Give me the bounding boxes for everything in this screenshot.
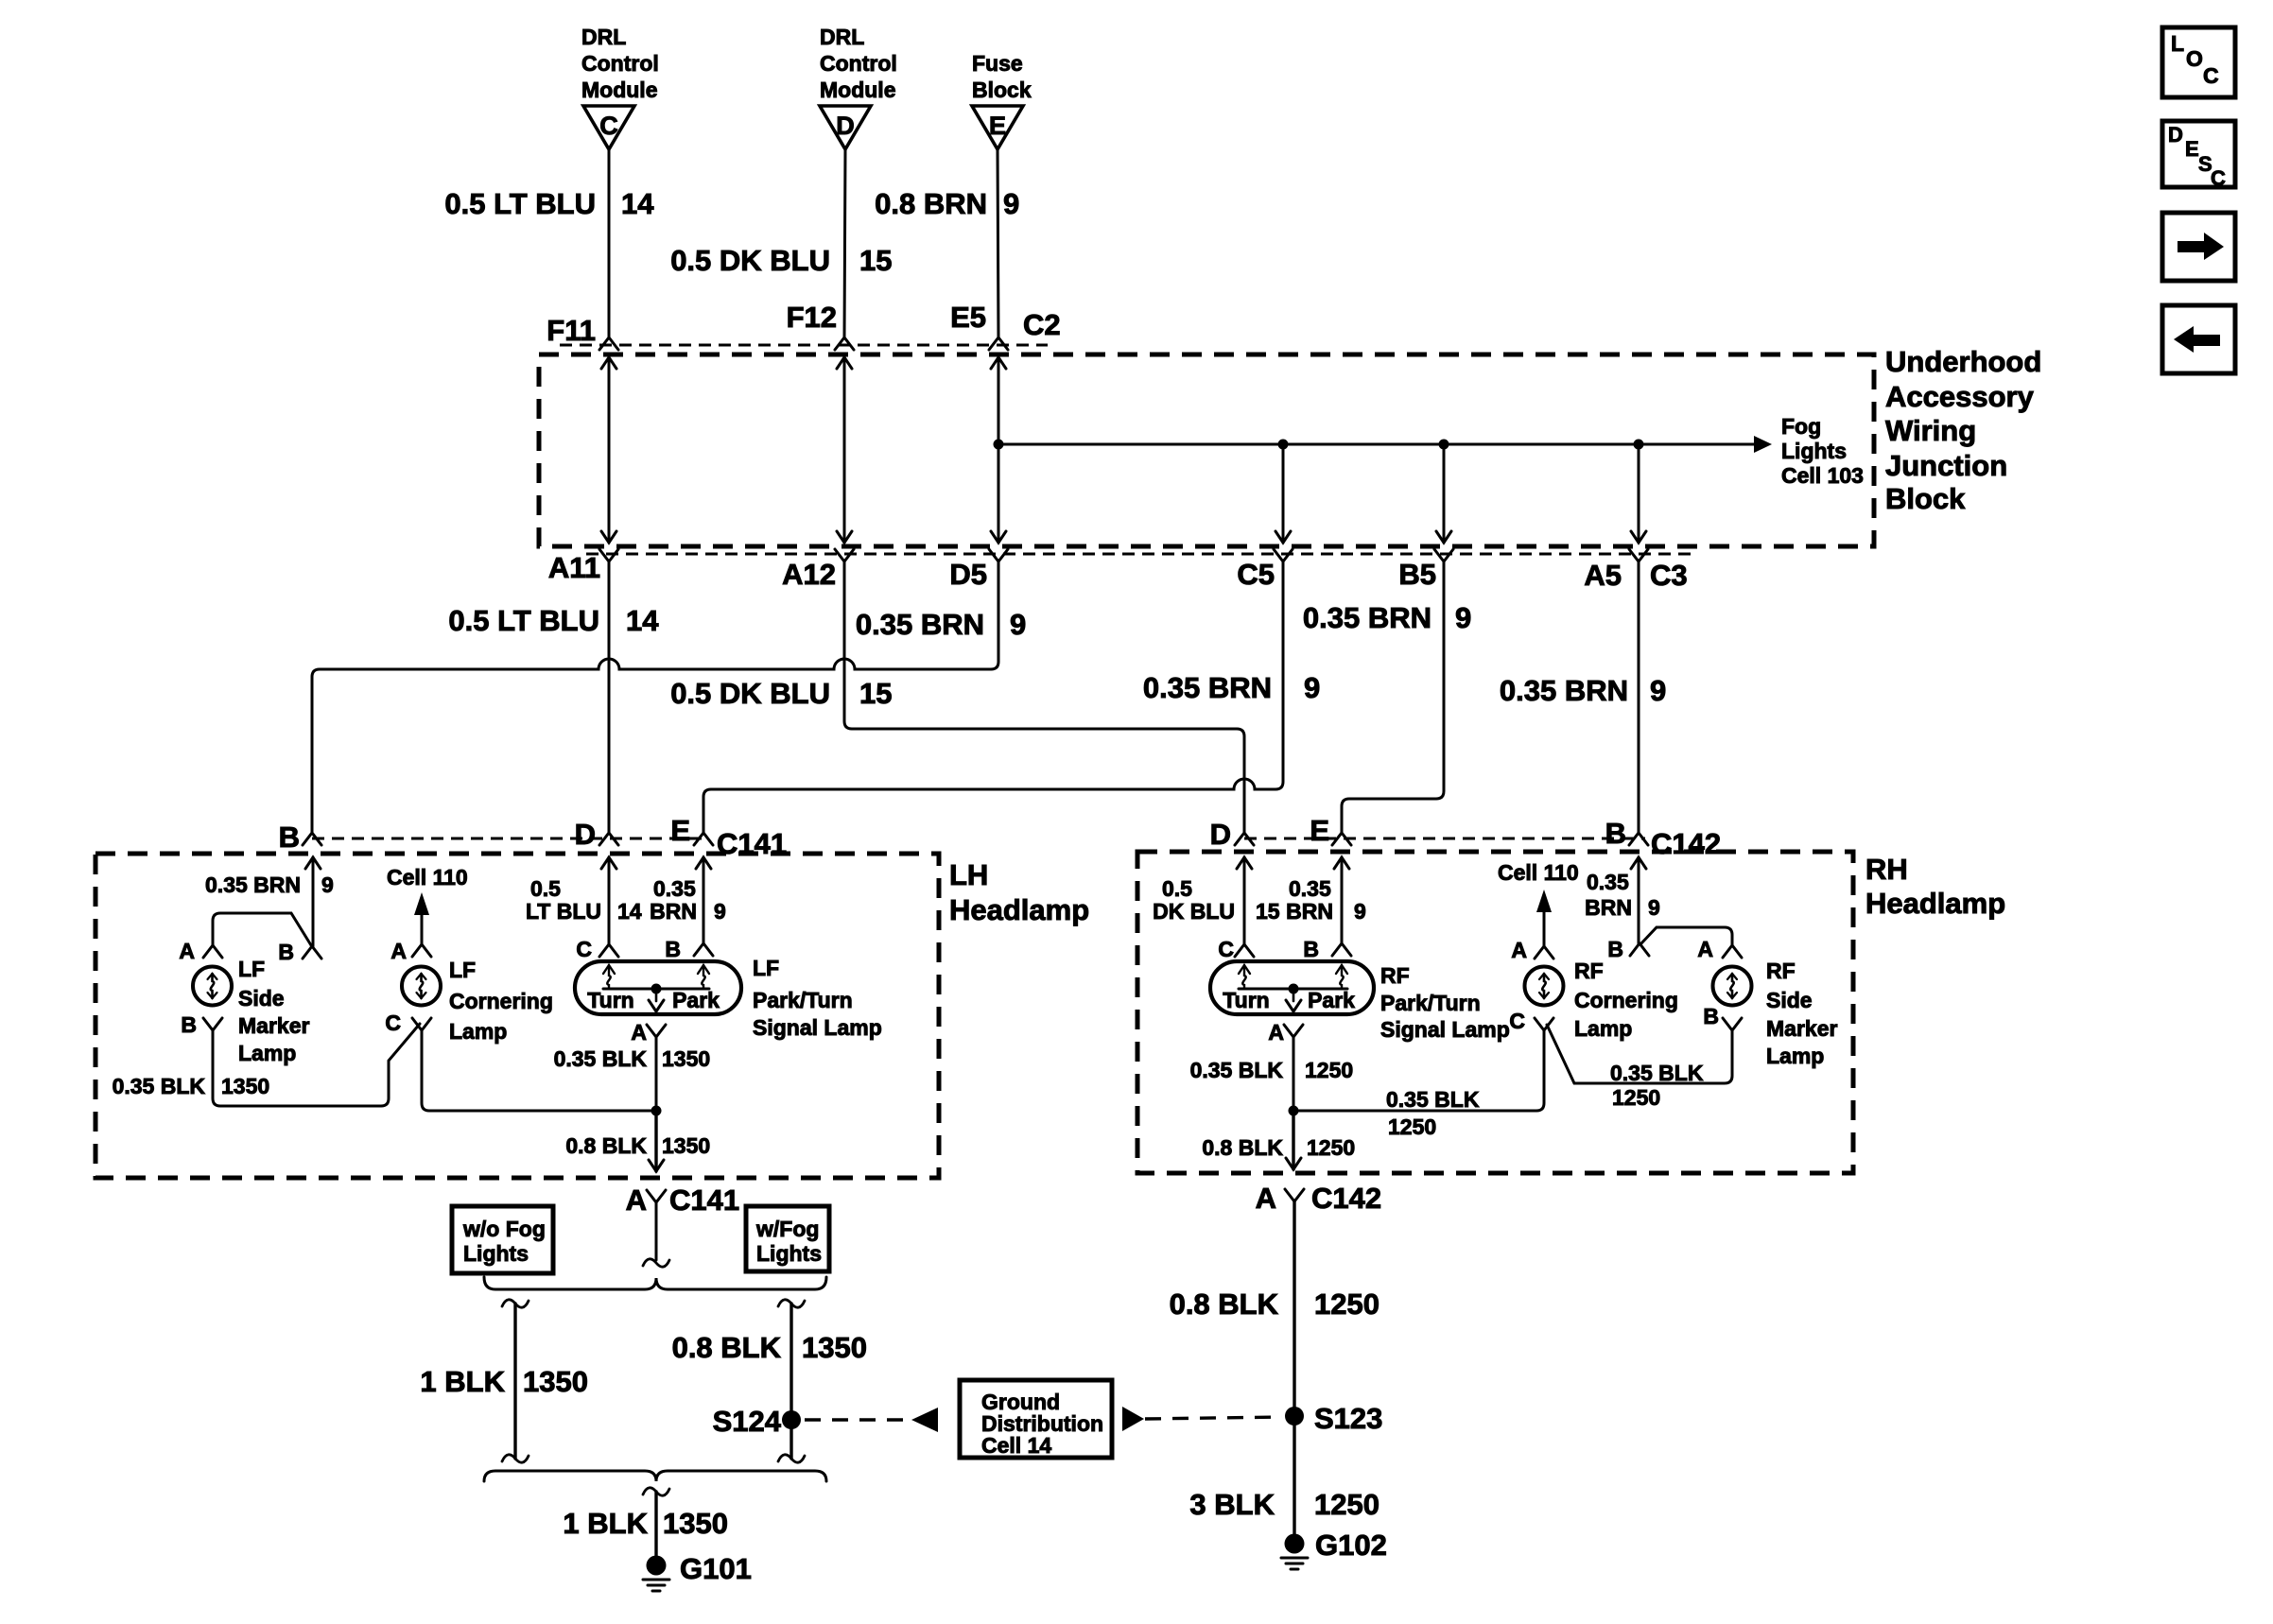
pin C5 [1237, 549, 1293, 591]
svg-text:0.5 DK BLU: 0.5 DK BLU [670, 677, 830, 710]
svg-text:0.35 BRN: 0.35 BRN [205, 872, 301, 897]
icon box arrow left [2162, 305, 2235, 373]
label E5 [950, 301, 986, 334]
pin B of RF side marker (ground) [1703, 1004, 1742, 1030]
svg-text:RF: RF [1574, 959, 1604, 983]
wire RF cornering A to Cell 110 [1536, 890, 1552, 946]
label RF Side Marker Lamp [1766, 959, 1837, 1068]
svg-text:9: 9 [1304, 671, 1320, 704]
svg-text:15: 15 [859, 677, 892, 710]
wire RF side marker A to feed [1640, 927, 1732, 945]
pin A of C141 (ground) [626, 1183, 740, 1217]
svg-text:15: 15 [1256, 899, 1280, 924]
svg-text:B: B [665, 937, 681, 961]
svg-text:0.5: 0.5 [1162, 876, 1192, 901]
label 1 BLK 1350 (G101) [563, 1507, 728, 1540]
svg-text:Headlamp: Headlamp [1865, 887, 2005, 920]
wire E5/C2-D5 inside block [991, 357, 1006, 543]
pin A of RF cornering lamp [1511, 938, 1553, 962]
svg-text:C141: C141 [669, 1183, 739, 1217]
svg-text:C2: C2 [1023, 308, 1061, 341]
label 0.5 DK BLU 15 (RH) [1153, 876, 1280, 924]
label 0.35 BRN 9 (B5 wire) [1303, 601, 1471, 634]
svg-text:BRN: BRN [1585, 895, 1632, 920]
svg-text:9: 9 [1354, 899, 1366, 924]
svg-text:C5: C5 [1237, 558, 1275, 591]
option box w/o Fog Lights [452, 1206, 553, 1273]
svg-text:D: D [836, 112, 855, 140]
icon box arrow right [2162, 213, 2235, 281]
svg-text:Lamp: Lamp [1574, 1016, 1632, 1041]
svg-text:0.35 BLK: 0.35 BLK [1386, 1087, 1480, 1112]
svg-text:Cell 110: Cell 110 [387, 865, 468, 890]
svg-text:Lamp: Lamp [449, 1019, 507, 1044]
wire B of C142 into box (0.35 BRN) [1631, 857, 1646, 943]
label LF Park/Turn Signal Lamp [753, 956, 882, 1040]
label Underhood Accessory Wiring Junction Block [1885, 345, 2041, 515]
wire A of C141 down [643, 1202, 669, 1267]
svg-text:A: A [179, 939, 195, 963]
label 0.8 BRN 9 [875, 187, 1019, 220]
svg-text:S124: S124 [713, 1405, 782, 1438]
svg-text:E5: E5 [950, 301, 986, 334]
svg-text:Lamp: Lamp [238, 1041, 296, 1065]
pin E of C142 [1310, 814, 1351, 847]
pin D5 [949, 549, 1008, 591]
wire RF side marker ground [1547, 1025, 1732, 1083]
wire D to F12 (0.5 DK BLU 15) [835, 149, 854, 350]
wire D of C141 into box (0.5 LT BLU) [601, 857, 616, 944]
svg-text:RF: RF [1766, 959, 1796, 983]
svg-text:O: O [2186, 46, 2203, 71]
svg-text:1250: 1250 [1314, 1488, 1379, 1521]
ground G102 [1281, 1529, 1387, 1569]
svg-text:Signal Lamp: Signal Lamp [753, 1015, 882, 1040]
svg-text:1250: 1250 [1305, 1058, 1353, 1082]
svg-text:A5: A5 [1584, 559, 1622, 592]
svg-text:S123: S123 [1314, 1402, 1382, 1435]
svg-text:Wiring: Wiring [1885, 414, 1976, 447]
svg-text:B: B [278, 940, 294, 964]
wire D of C142 into box (0.5 DK BLU) [1237, 857, 1252, 944]
svg-text:LF: LF [753, 956, 779, 980]
pin B of RF park/turn [1303, 937, 1351, 961]
svg-text:Signal Lamp: Signal Lamp [1380, 1017, 1510, 1042]
svg-text:w/o Fog: w/o Fog [462, 1217, 546, 1241]
icon box LOC [2162, 27, 2235, 97]
wire RH ground junction to cornering [1293, 1030, 1544, 1111]
svg-text:0.35 BLK: 0.35 BLK [554, 1046, 648, 1071]
svg-text:B: B [279, 821, 300, 854]
wire fog junction to A5/C3 [1631, 444, 1646, 543]
svg-text:Fog: Fog [1781, 414, 1821, 439]
wire LF side marker ground [213, 1024, 420, 1106]
svg-text:0.35 BRN: 0.35 BRN [1500, 674, 1628, 707]
pin D of C141 [575, 818, 618, 851]
label C141 [717, 827, 787, 860]
pin C of RF park/turn [1218, 937, 1254, 961]
wire C5 to E of C141 (0.35 BRN) with hop [703, 561, 1283, 833]
label Turn (RH) [1223, 988, 1269, 1012]
pin A of C142 (ground) [1256, 1182, 1382, 1215]
label 0.5 DK BLU 15 [670, 244, 892, 277]
RH ground junction [1289, 1106, 1299, 1116]
RF park/turn internal bar [1239, 984, 1347, 1012]
svg-text:0.5 DK BLU: 0.5 DK BLU [670, 244, 830, 277]
label 0.5 LT BLU 14 [444, 187, 654, 220]
svg-text:0.5: 0.5 [530, 876, 561, 901]
svg-text:1250: 1250 [1307, 1135, 1355, 1160]
svg-text:0.35 BLK: 0.35 BLK [1190, 1058, 1284, 1082]
svg-text:DRL: DRL [581, 25, 626, 49]
wire D5 to B of C141 (0.35 BRN) with hops [312, 561, 998, 833]
svg-text:0.5 LT BLU: 0.5 LT BLU [444, 187, 596, 220]
pin A of LF park/turn [631, 1020, 666, 1045]
svg-text:E: E [989, 112, 1006, 140]
svg-text:3 BLK: 3 BLK [1189, 1488, 1275, 1521]
LF park/turn lamp body [575, 961, 741, 1014]
svg-text:BRN: BRN [1286, 899, 1333, 924]
label Park [672, 988, 720, 1012]
connector triangle C (DRL Control Module) [581, 25, 659, 149]
svg-text:9: 9 [1455, 601, 1471, 634]
svg-text:D: D [575, 818, 596, 851]
svg-text:DK BLU: DK BLU [1153, 899, 1235, 924]
svg-text:Fuse: Fuse [972, 51, 1023, 76]
label 0.8 BLK 1350 (w/fog) [672, 1331, 867, 1364]
label Park (RH) [1308, 988, 1355, 1012]
connector face dashed line (bottom) [586, 553, 1697, 556]
svg-text:Park/Turn: Park/Turn [1380, 991, 1481, 1015]
svg-text:Park: Park [1308, 988, 1355, 1012]
svg-text:F12: F12 [787, 301, 837, 334]
label 0.35 BLK 1350 (LH park/turn) [554, 1046, 711, 1071]
svg-text:B: B [1607, 937, 1623, 961]
wire F11-A11 inside block [601, 357, 616, 543]
LH Headlamp (dashed box) [95, 854, 939, 1178]
svg-text:0.8 BRN: 0.8 BRN [875, 187, 987, 220]
svg-text:0.35: 0.35 [653, 876, 696, 901]
label RH Headlamp [1865, 853, 2005, 920]
wire E of C142 into box (0.35 BRN) [1334, 857, 1349, 943]
splice brace lower [484, 1471, 826, 1481]
splice brace upper [484, 1277, 826, 1289]
pin C of RF cornering lamp [1509, 1009, 1553, 1033]
wire LF side marker A to feed [213, 913, 311, 945]
svg-text:Marker: Marker [1766, 1016, 1837, 1041]
svg-text:0.35 BLK: 0.35 BLK [1610, 1061, 1704, 1085]
label F11 [547, 314, 596, 347]
wire LF cornering ground [422, 1030, 658, 1111]
pin C of LF cornering lamp [385, 1011, 431, 1035]
label Cell 110 (RH) [1498, 860, 1579, 885]
svg-text:Underhood: Underhood [1885, 345, 2041, 378]
svg-text:9: 9 [321, 872, 334, 897]
svg-text:1 BLK: 1 BLK [420, 1365, 505, 1398]
svg-text:F11: F11 [547, 314, 596, 347]
svg-text:Headlamp: Headlamp [949, 893, 1089, 926]
svg-text:9: 9 [1648, 895, 1660, 920]
svg-text:C: C [2203, 63, 2219, 88]
pin A12 [782, 549, 854, 591]
LF park/turn internal bar [603, 984, 709, 1012]
svg-text:1350: 1350 [663, 1507, 728, 1540]
svg-text:Block: Block [1885, 482, 1966, 515]
svg-text:D: D [1210, 818, 1231, 851]
LF side marker lamp [193, 967, 232, 1006]
svg-text:RF: RF [1380, 963, 1410, 988]
svg-text:E: E [670, 814, 690, 847]
wire RH ground out (0.8 BLK) [1286, 1111, 1301, 1169]
pin A11 [548, 549, 618, 584]
svg-text:A: A [1697, 937, 1713, 961]
pin A of LF side marker [179, 939, 222, 963]
label 3 BLK 1250 [1189, 1488, 1379, 1521]
svg-text:w/Fog: w/Fog [755, 1217, 819, 1241]
svg-text:Cell 103: Cell 103 [1781, 463, 1864, 488]
wire A of C142 to ground G102 [1293, 1201, 1295, 1534]
wire LH ground out (0.8 BLK) [649, 1111, 664, 1171]
label RF Cornering Lamp [1574, 959, 1678, 1041]
wire A12 to D of C142 (0.5 DK BLU) [844, 561, 1244, 833]
pin B of LF side marker (ground) [181, 1012, 222, 1037]
wire fog junction to B5 [1436, 444, 1451, 543]
svg-text:D: D [2168, 123, 2183, 147]
svg-text:RH: RH [1865, 853, 1908, 886]
svg-text:Marker: Marker [238, 1013, 309, 1038]
svg-text:A11: A11 [548, 551, 600, 584]
svg-text:C: C [385, 1011, 401, 1035]
svg-text:E: E [2185, 137, 2199, 161]
label 0.35 BLK 1250 (RH side marker) [1610, 1061, 1704, 1110]
svg-text:A: A [631, 1020, 647, 1045]
RF cornering lamp [1525, 967, 1564, 1006]
svg-text:Cornering: Cornering [449, 989, 553, 1013]
pin B of RF side marker (feed end) [1607, 937, 1649, 961]
svg-text:C: C [2211, 166, 2226, 190]
svg-text:Module: Module [581, 78, 658, 102]
label 0.8 BLK 1250 (RH) [1202, 1135, 1355, 1160]
LH ground junction [651, 1106, 662, 1116]
svg-text:1250: 1250 [1388, 1114, 1436, 1139]
wire B of C141 into box (0.35 BRN) [305, 857, 321, 946]
RH Headlamp (dashed box) [1137, 852, 1853, 1173]
svg-text:1250: 1250 [1314, 1287, 1379, 1321]
svg-text:0.35 BRN: 0.35 BRN [856, 608, 984, 641]
svg-text:E: E [1310, 814, 1329, 847]
svg-text:A: A [1256, 1182, 1276, 1215]
label LF Cornering Lamp [449, 958, 553, 1044]
label 0.35 BLK 1250 (RH cornering ground) [1386, 1087, 1480, 1139]
svg-text:C142: C142 [1311, 1182, 1381, 1215]
svg-text:0.35 BLK: 0.35 BLK [113, 1074, 206, 1098]
svg-text:Control: Control [820, 51, 897, 76]
svg-text:LH: LH [949, 858, 988, 891]
svg-text:C: C [576, 937, 592, 961]
svg-text:A: A [390, 939, 407, 963]
connector triangle D (DRL Control Module) [820, 25, 897, 149]
label 0.8 BLK 1350 (LH) [565, 1133, 710, 1158]
svg-text:0.35: 0.35 [1289, 876, 1331, 901]
svg-text:1 BLK: 1 BLK [563, 1507, 648, 1540]
label 0.35 BRN 9 (D5 wire) [856, 608, 1026, 641]
svg-text:0.8 BLK: 0.8 BLK [1202, 1135, 1283, 1160]
wire A5/C3 to B of C142 (0.35 BRN) [1638, 561, 1640, 833]
svg-text:BRN: BRN [650, 899, 697, 924]
LF cornering lamp [402, 967, 441, 1006]
pin B of C142 [1605, 817, 1648, 850]
svg-text:B: B [181, 1012, 197, 1037]
label 0.5 LT BLU 14 (below block) [448, 604, 659, 637]
RF side marker lamp [1713, 967, 1752, 1006]
svg-text:1250: 1250 [1612, 1085, 1660, 1110]
svg-text:14: 14 [617, 899, 642, 924]
wire RF park/turn ground [1293, 1037, 1295, 1111]
LF park/turn park filament [698, 965, 709, 989]
svg-text:14: 14 [621, 187, 654, 220]
label 0.35 BRN 9 (LH park/turn) [650, 876, 726, 924]
RF park/turn turn filament [1239, 965, 1250, 989]
label 0.35 BLK 1350 (side marker) [113, 1074, 270, 1098]
svg-text:Junction: Junction [1885, 449, 2007, 482]
label 0.5 DK BLU 15 (below block) [670, 677, 892, 710]
connector triangle E (Fuse Block) [972, 51, 1032, 149]
pin B of LF side marker (feed end) [278, 940, 321, 964]
fog lights feed wire [994, 436, 1773, 453]
svg-text:C142: C142 [1651, 827, 1721, 860]
svg-text:A12: A12 [782, 558, 836, 591]
svg-text:LF: LF [238, 957, 265, 981]
label F12 [787, 301, 837, 334]
svg-text:Turn: Turn [587, 988, 633, 1012]
pin B of C141 [279, 821, 321, 854]
label C142 [1651, 827, 1721, 860]
svg-text:Accessory: Accessory [1885, 380, 2035, 413]
label 0.35 BRN 9 (RH side marker) [1585, 870, 1660, 920]
svg-text:B: B [1703, 1004, 1719, 1028]
svg-text:G102: G102 [1315, 1529, 1387, 1562]
svg-text:A: A [1511, 938, 1527, 962]
svg-text:9: 9 [1010, 608, 1026, 641]
wire to G101 (1 BLK 1350) [643, 1488, 669, 1558]
svg-text:Block: Block [972, 78, 1032, 102]
wire A11 to D of C141 (0.5 LT BLU) [608, 561, 611, 833]
svg-text:C: C [599, 112, 618, 140]
svg-text:C3: C3 [1650, 559, 1688, 592]
label 1 BLK 1350 [420, 1365, 588, 1398]
pin A of RF park/turn [1268, 1020, 1303, 1045]
svg-text:C: C [1218, 937, 1234, 961]
pin D of C142 [1210, 818, 1254, 851]
wire B5 to E of C142 (0.35 BRN) [1342, 561, 1444, 833]
svg-text:9: 9 [714, 899, 726, 924]
label Turn [587, 988, 633, 1012]
wire LF cornering A to Cell 110 [414, 892, 429, 944]
connector C141 dashed face [312, 838, 709, 840]
svg-text:1350: 1350 [523, 1365, 588, 1398]
svg-text:Turn: Turn [1223, 988, 1269, 1012]
wire E to E5 (0.8 BRN 9) [989, 149, 1008, 350]
label 0.8 BLK 1250 (below C142) [1170, 1287, 1379, 1321]
label RF Park/Turn Signal Lamp [1380, 963, 1510, 1042]
pin A of LF cornering lamp [390, 939, 431, 963]
svg-text:LT BLU: LT BLU [526, 899, 601, 924]
label Cell 110 (LH) [387, 865, 468, 890]
svg-text:1350: 1350 [662, 1133, 710, 1158]
connector C142 dashed face [1244, 838, 1645, 840]
svg-text:Lights: Lights [756, 1241, 822, 1266]
svg-text:0.35 BRN: 0.35 BRN [1303, 601, 1431, 634]
RF park/turn park filament [1336, 965, 1347, 989]
label C3 [1650, 559, 1688, 592]
label Fog Lights Cell 103 [1781, 414, 1864, 488]
label 0.35 BLK 1250 (RH park/turn) [1190, 1058, 1354, 1082]
svg-text:0.8 BLK: 0.8 BLK [565, 1133, 647, 1158]
pin B5 [1398, 549, 1453, 591]
label 0.35 BRN 9 (RH park/turn) [1286, 876, 1366, 924]
svg-text:A: A [626, 1183, 647, 1217]
svg-text:A: A [1268, 1020, 1284, 1045]
svg-text:0.35 BRN: 0.35 BRN [1143, 671, 1272, 704]
wire F12-A12 inside block [837, 357, 852, 543]
option box w/Fog Lights [746, 1206, 829, 1271]
svg-text:L: L [2171, 31, 2184, 56]
RF park/turn lamp body [1210, 961, 1374, 1014]
pin E of C141 [670, 814, 713, 847]
option wire w/o fog (1 BLK 1350) [502, 1300, 529, 1462]
label 0.35 BRN 9 (LH side marker feed) [205, 872, 334, 897]
label 0.5 LT BLU 14 (LH park/turn) [526, 876, 642, 924]
svg-text:B: B [1605, 817, 1626, 850]
svg-text:B5: B5 [1398, 558, 1436, 591]
svg-text:14: 14 [626, 604, 659, 637]
wire fog junction to C5 [1275, 444, 1291, 543]
splice S123 [1285, 1402, 1382, 1435]
svg-text:LF: LF [449, 958, 476, 982]
svg-text:0.8 BLK: 0.8 BLK [1170, 1287, 1279, 1321]
svg-text:Park: Park [672, 988, 720, 1012]
Underhood Accessory Wiring Junction Block (dashed box) [539, 354, 1874, 546]
connector face dashed line (top) [560, 344, 1048, 347]
svg-text:Module: Module [820, 78, 896, 102]
svg-text:Lights: Lights [463, 1241, 529, 1266]
pin A of RF side marker [1697, 937, 1742, 961]
LF park/turn turn filament [603, 965, 615, 989]
icon box DESC [2162, 121, 2235, 190]
label 0.35 BRN 9 (C3 wire) [1500, 674, 1666, 707]
svg-text:1350: 1350 [221, 1074, 269, 1098]
svg-text:C: C [1509, 1009, 1525, 1033]
svg-text:Cell 110: Cell 110 [1498, 860, 1579, 885]
wire C to F11 (0.5 LT BLU 14) [599, 149, 618, 350]
option wire w/fog (0.8 BLK 1350) [778, 1300, 805, 1462]
svg-text:DRL: DRL [820, 25, 864, 49]
svg-text:0.5 LT BLU: 0.5 LT BLU [448, 604, 599, 637]
label C2 [1023, 308, 1061, 341]
svg-text:Control: Control [581, 51, 659, 76]
svg-text:B: B [1303, 937, 1319, 961]
svg-text:1350: 1350 [802, 1331, 867, 1364]
splice S124 [713, 1405, 801, 1438]
pin A5 [1584, 549, 1648, 592]
pin B of LF park/turn [665, 937, 713, 961]
svg-text:0.8 BLK: 0.8 BLK [672, 1331, 782, 1364]
svg-text:Lights: Lights [1781, 439, 1847, 463]
label 0.35 BRN 9 (C5 wire) [1143, 671, 1320, 704]
svg-text:9: 9 [1650, 674, 1666, 707]
svg-text:Park/Turn: Park/Turn [753, 988, 853, 1012]
label LF Side Marker Lamp [238, 957, 309, 1065]
